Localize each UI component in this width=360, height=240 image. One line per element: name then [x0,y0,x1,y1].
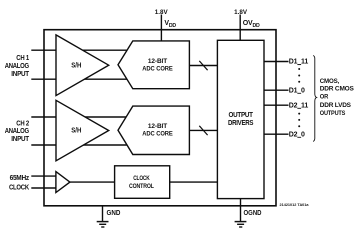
svg-text:D2_11: D2_11 [289,102,309,109]
wire OVDD stem [239,15,241,41]
svg-text:65MHz: 65MHz [10,175,30,182]
block output drivers U3 [217,40,264,198]
svg-text:ADC CORE: ADC CORE [142,130,173,137]
wire ADC1 bus to output drivers [189,65,217,67]
ellipsis dots D2 [298,113,300,128]
label 12-BIT ADC CORE 1 [142,58,173,73]
block 12-bit ADC core 1 [118,41,189,89]
wire GND stem [102,206,104,222]
label output modes [320,78,355,117]
brace grouping outputs [313,56,317,142]
label OUTPUT DRIVERS [228,112,254,127]
wire clock control to output drivers [170,181,218,183]
block clock control [115,166,170,199]
svg-text:D1_0: D1_0 [289,87,305,94]
wire CH2 input - to S/H [31,144,126,146]
svg-text:OGND: OGND [244,210,262,217]
svg-text:S/H: S/H [71,128,81,135]
wire CH2 input + to S/H [31,116,126,118]
underscore marks on D labels [297,65,301,138]
op-amp clock buffer [56,172,70,193]
label 12-BIT ADC CORE 2 [142,123,173,137]
svg-text:OUTPUTS: OUTPUTS [320,110,346,117]
svg-text:21421012 TA01a: 21421012 TA01a [280,203,310,207]
wire output D2_0 [264,133,289,135]
svg-text:CONTROL: CONTROL [129,183,154,190]
wire CH1 input - to S/H [31,78,127,80]
svg-text:12-BIT: 12-BIT [148,123,168,130]
wire output D1_11 [264,61,289,63]
svg-text:OUTPUT: OUTPUT [229,112,254,119]
svg-text:CMOS,: CMOS, [320,78,340,85]
wire output D2_11 [264,104,289,106]
wire CH1 input + to S/H [31,49,127,51]
bus slash ADC2 [199,126,207,135]
svg-text:12-BIT: 12-BIT [148,58,168,65]
op-amp S/H channel 2 [56,100,109,161]
svg-text:ADC CORE: ADC CORE [142,65,173,72]
svg-text:OR: OR [320,94,329,101]
op-amp S/H channel 1 [56,35,109,96]
svg-text:DDR CMOS: DDR CMOS [320,85,355,92]
wire clock buffer to clock control [70,181,115,183]
wire OGND stem [240,198,242,221]
svg-text:INPUT: INPUT [11,71,30,78]
outer package box [44,30,276,206]
bus slash ADC1 [199,61,207,70]
block 12-bit ADC core 2 [118,106,189,154]
svg-text:CH 2: CH 2 [16,120,29,127]
svg-text:1.8V: 1.8V [155,9,168,16]
svg-text:DDR LVDS: DDR LVDS [320,102,352,109]
label CLOCK CONTROL [129,175,154,190]
svg-text:D1_11: D1_11 [289,59,309,66]
wire ADC2 bus to output drivers [189,129,217,131]
ellipsis dots D1 [298,68,300,83]
wire clock input - [31,187,56,189]
wire VDD stem [160,15,162,42]
wire output D1_0 [264,89,289,91]
svg-text:1.8V: 1.8V [234,9,247,16]
ground symbol OGND [235,222,247,227]
svg-text:S/H: S/H [71,62,81,69]
svg-text:ANALOG: ANALOG [5,63,30,70]
svg-text:GND: GND [107,210,121,217]
svg-text:CLOCK: CLOCK [133,175,150,182]
svg-text:CLOCK: CLOCK [9,184,29,191]
label CH 1 ANALOG INPUT [5,55,30,78]
svg-text:CH 1: CH 1 [16,55,29,62]
svg-text:D2_0: D2_0 [289,131,305,138]
label CH 2 ANALOG INPUT [5,120,30,143]
ground symbol GND [97,222,109,227]
svg-text:ANALOG: ANALOG [5,128,30,135]
svg-text:DRIVERS: DRIVERS [228,120,254,127]
wire clock input + [31,175,56,177]
svg-text:INPUT: INPUT [11,136,30,143]
label 65MHz CLOCK [9,175,30,191]
